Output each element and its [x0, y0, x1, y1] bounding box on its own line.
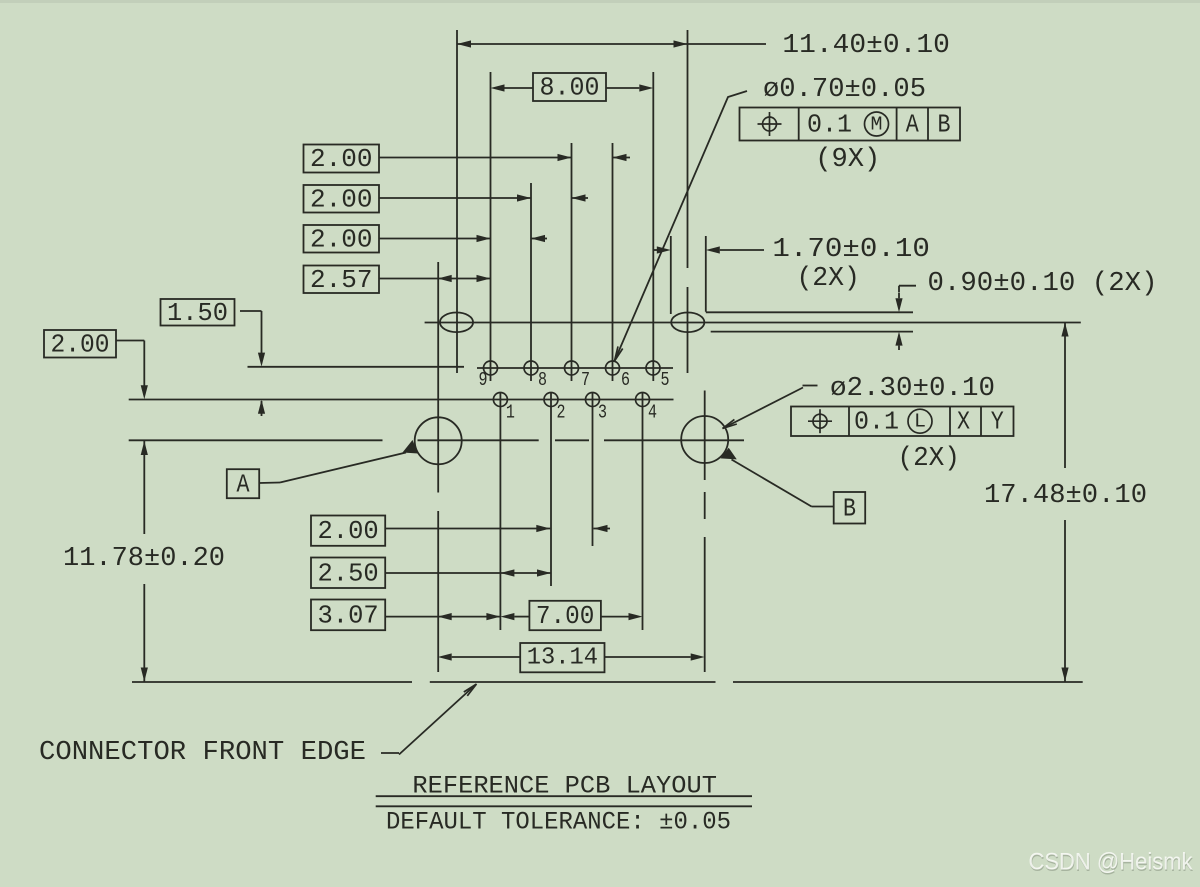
svg-text:2.00: 2.00 — [51, 329, 110, 359]
svg-text:8: 8 — [538, 369, 547, 391]
svg-text:M: M — [871, 114, 883, 136]
svg-text:9: 9 — [479, 369, 488, 391]
svg-text:CSDN @Heismk: CSDN @Heismk — [1029, 849, 1194, 876]
svg-text:4: 4 — [648, 402, 657, 424]
svg-text:0.1: 0.1 — [854, 407, 899, 437]
svg-text:17.48±0.10: 17.48±0.10 — [984, 481, 1147, 511]
svg-text:2.50: 2.50 — [318, 558, 379, 588]
svg-text:ø0.70±0.05: ø0.70±0.05 — [763, 75, 926, 105]
svg-text:1: 1 — [506, 402, 515, 424]
svg-text:ø2.30±0.10: ø2.30±0.10 — [830, 374, 995, 404]
svg-text:7.00: 7.00 — [536, 601, 595, 631]
svg-text:CONNECTOR FRONT EDGE: CONNECTOR FRONT EDGE — [39, 738, 366, 768]
svg-text:Y: Y — [991, 407, 1004, 437]
svg-text:8.00: 8.00 — [540, 73, 600, 103]
svg-text:3: 3 — [598, 402, 607, 424]
svg-text:2: 2 — [557, 402, 566, 424]
svg-text:A: A — [906, 110, 919, 140]
svg-text:2.00: 2.00 — [318, 516, 379, 546]
svg-text:1.70±0.10: 1.70±0.10 — [772, 235, 930, 265]
svg-text:(2X): (2X) — [897, 444, 960, 474]
svg-text:6: 6 — [621, 369, 630, 391]
svg-text:(2X): (2X) — [796, 264, 860, 294]
svg-text:1.50: 1.50 — [167, 298, 228, 328]
svg-text:7: 7 — [581, 369, 590, 391]
svg-text:B: B — [843, 494, 856, 524]
svg-text:11.78±0.20: 11.78±0.20 — [63, 544, 225, 574]
svg-text:L: L — [914, 411, 926, 433]
svg-text:0.1: 0.1 — [807, 110, 852, 140]
svg-text:(9X): (9X) — [815, 145, 880, 175]
svg-text:0.90±0.10 (2X): 0.90±0.10 (2X) — [928, 269, 1158, 299]
svg-text:2.00: 2.00 — [310, 184, 373, 214]
svg-text:B: B — [938, 110, 951, 140]
svg-text:A: A — [237, 470, 250, 500]
svg-text:X: X — [957, 407, 970, 437]
svg-text:3.07: 3.07 — [318, 600, 379, 630]
svg-text:11.40±0.10: 11.40±0.10 — [782, 31, 950, 61]
svg-text:2.00: 2.00 — [310, 144, 373, 174]
svg-text:2.57: 2.57 — [310, 265, 373, 295]
svg-text:13.14: 13.14 — [527, 645, 598, 672]
svg-text:2.00: 2.00 — [310, 224, 373, 254]
svg-text:DEFAULT TOLERANCE: ±0.05: DEFAULT TOLERANCE: ±0.05 — [386, 808, 731, 837]
svg-text:REFERENCE PCB LAYOUT: REFERENCE PCB LAYOUT — [412, 772, 717, 801]
svg-text:5: 5 — [661, 369, 670, 391]
